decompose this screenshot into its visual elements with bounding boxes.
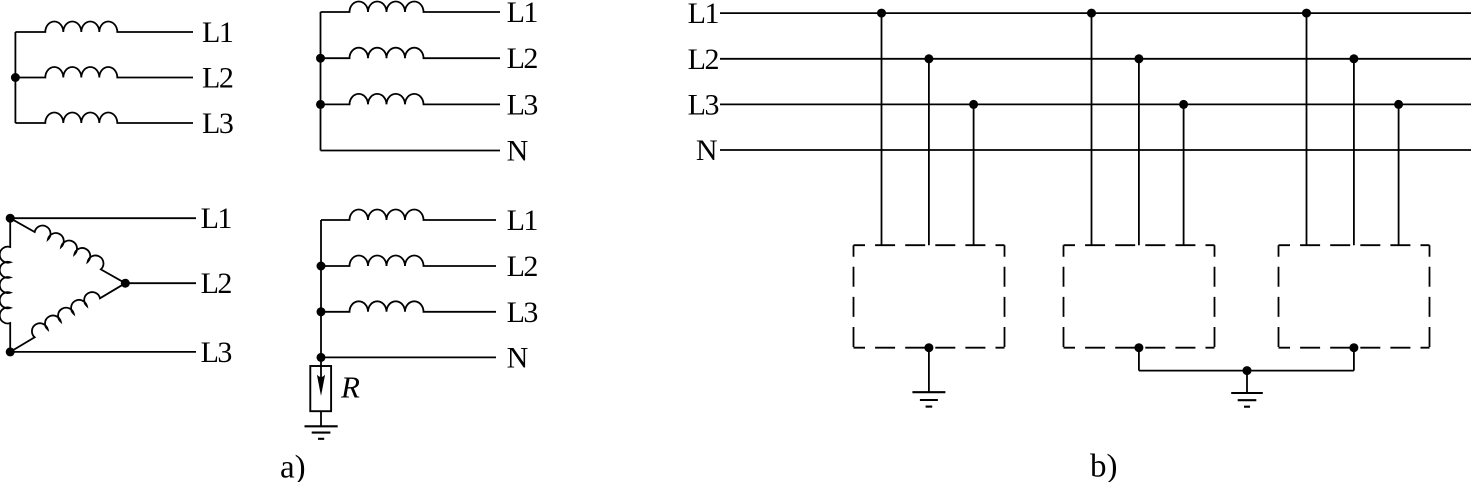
svg-text:b): b) [1090,449,1118,482]
ground symbol b1 [912,392,945,406]
wire L1 [10,217,196,219]
svg-text:N: N [696,134,717,167]
ground symbol a [305,426,338,439]
node delta C [6,347,15,356]
node delta A [6,214,15,223]
svg-text:L2: L2 [688,43,719,76]
svg-text:N: N [507,135,528,168]
wire star-point vertical [320,220,322,366]
svg-text:L1: L1 [507,204,538,237]
svg-text:L3: L3 [201,336,232,369]
group 2 drop from L1 [1091,13,1093,245]
winding W1 row L1 [321,2,501,13]
wire box 1 to earth [928,348,930,393]
wire neutral row N [321,356,496,358]
node box 1 earth point [924,343,933,352]
svg-text:L3: L3 [507,296,538,329]
wire earth tie [1139,370,1354,372]
resistor R current arrow shaft [320,366,322,380]
wire box 3 down [1353,348,1355,371]
svg-text:R: R [340,370,360,405]
winding W1 row L1 [15,21,193,32]
svg-text:N: N [507,341,528,374]
group 2 node on L2 [1134,54,1143,63]
node star point L2 [317,262,326,271]
group 1 drop from L2 [928,59,930,245]
node box 3 earth point [1349,343,1358,352]
load box 1 (dashed) [854,245,1005,348]
svg-text:L3: L3 [688,88,719,121]
group 2 node on L3 [1179,100,1188,109]
winding left side A-C [0,218,10,352]
group 3 node on L3 [1394,100,1403,109]
wire box 2 down [1138,348,1140,371]
winding W2 row L2 [15,67,193,78]
wire neutral row N [321,150,501,152]
group 1 node on L2 [924,54,933,63]
group 3 node on L2 [1349,54,1358,63]
group 1 drop from L1 [881,13,883,245]
winding top side A-B [10,218,125,283]
group 2 drop from L2 [1138,59,1140,245]
svg-text:L3: L3 [202,107,233,140]
winding W1 row L1 [321,210,496,221]
group 1 node on L1 [877,9,886,18]
svg-text:a): a) [280,450,306,482]
wire L3 [10,351,196,353]
winding W3 row L3 [321,94,501,104]
svg-text:L2: L2 [507,250,538,283]
node star point L3 [316,100,325,109]
winding bottom side C-B [10,283,125,352]
svg-text:L1: L1 [688,0,719,30]
winding W3 row L3 [15,112,193,123]
wire tie to earth [1246,371,1248,393]
wire star-point vertical [14,32,16,123]
bus L1 [720,12,1471,14]
svg-text:L1: L1 [202,16,233,49]
wire L2 [125,282,196,284]
bus N [720,149,1471,151]
group 3 drop from L2 [1353,59,1355,245]
load box 3 (dashed) [1279,245,1430,348]
group 2 node on L1 [1087,9,1096,18]
group 2 drop from L3 [1183,104,1185,245]
group 1 node on L3 [969,100,978,109]
load box 2 (dashed) [1064,245,1215,348]
svg-text:L2: L2 [507,42,538,75]
node star point L3 [317,307,326,316]
group 3 drop from L1 [1306,13,1308,245]
group 3 node on L1 [1302,9,1311,18]
node neutral N [317,353,326,362]
svg-text:L2: L2 [201,267,232,300]
node box 2 earth point [1134,343,1143,352]
svg-text:L3: L3 [507,88,538,121]
group 3 drop from L3 [1398,104,1400,245]
bus L3 [720,103,1471,105]
wire star-point vertical [320,12,322,151]
node earth tie [1243,366,1252,375]
group 1 drop from L3 [973,104,975,245]
ground symbol b2 [1231,393,1263,407]
bus L2 [720,58,1471,60]
svg-text:L1: L1 [201,202,232,235]
svg-text:L2: L2 [202,62,233,95]
winding W3 row L3 [321,301,496,312]
node star point [11,73,20,82]
node star point L2 [316,54,325,63]
node delta B [121,279,130,288]
winding W2 row L2 [321,256,496,267]
winding W2 row L2 [321,48,501,59]
wire resistor to earth [320,411,322,426]
resistor R body [310,366,331,411]
resistor R current arrow head [317,375,325,396]
svg-text:L1: L1 [507,0,538,29]
